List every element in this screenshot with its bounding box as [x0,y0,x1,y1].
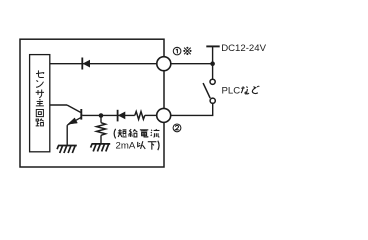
wire: top rail from block to terminal 1 [50,63,157,65]
wire: lower rail [82,114,135,116]
glyph 下 [148,142,157,150]
power supply bar DC12-24V [206,45,219,47]
ground G1 (emitter) [57,146,77,154]
glyph 以 [138,141,146,149]
glyph ン [36,80,43,87]
sensor main circuit block (inner box) [30,55,50,152]
glyph な [241,86,249,94]
switch (PLC contact) [203,79,215,103]
wire: junction down to resistor R1 [100,116,102,123]
diode D2 (lower, cathode bar left, pointing left) [118,110,125,122]
wire: junction down to switch [212,64,214,79]
paren （ [114,129,115,139]
ground G2 (under R1) [91,144,111,152]
terminal circle 1 [157,57,171,71]
glyph セ [36,70,44,77]
svg-text:DC12-24V: DC12-24V [221,43,266,54]
glyph 流 [151,129,160,137]
resistor R2 (horizontal zigzag) [135,112,145,120]
wire: terminal 1 to junction [171,63,213,65]
glyph 電 [140,130,148,137]
diode D1 (top, cathode bar left, pointing left) [82,58,89,70]
glyph サ [36,89,44,97]
label ①※ [173,47,191,55]
wire: emitter to ground [66,125,68,145]
svg-text:2mA: 2mA [116,141,136,152]
junction node on lower rail [99,113,104,118]
power supply stem [212,46,214,63]
terminal circle 2 [157,108,171,122]
glyph 回 [36,109,43,116]
glyph 主 [36,99,44,106]
label (短絡電流 [114,129,159,139]
glyph 絡 [129,129,138,137]
paren ） [158,141,159,151]
transistor Q1 [67,105,82,125]
wire: resistor R1 to ground [100,135,102,143]
junction node (dot) [210,61,215,66]
wire: collector from block [50,104,67,106]
glyph 路 [36,119,44,126]
wire: switch return to terminal 2 [171,103,213,115]
outer enclosure box [20,39,164,167]
glyph ど [252,86,259,94]
label ② [173,124,181,132]
svg-text:PLC: PLC [222,86,241,97]
resistor R1 (vertical zigzag) [97,123,106,136]
vertical label センサ主回路 [36,70,44,125]
glyph 短 [118,129,127,137]
